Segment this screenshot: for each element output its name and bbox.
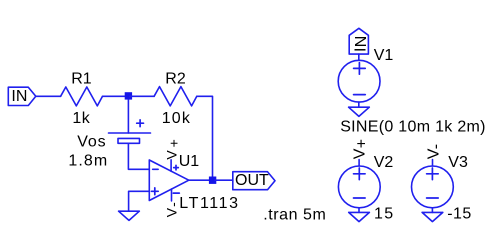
battery plus sign [137,120,144,127]
wire op-amp noninverting input to ground [129,191,150,211]
svg-text:R2: R2 [165,70,186,87]
node junction 2 (output) [209,177,216,184]
svg-text:U1: U1 [179,153,200,170]
svg-text:R1: R1 [71,70,92,87]
inverting input dash [153,168,158,170]
svg-text:V3: V3 [448,154,468,171]
power pin V- small minus [173,192,179,194]
triangle [149,160,189,201]
svg-text:SINE(0 10m 1k 2m): SINE(0 10m 1k 2m) [340,119,486,136]
node junction 1 [125,92,132,99]
voltage source Vos (battery) [68,100,150,170]
svg-text:V2: V2 [374,154,394,171]
svg-text:LT1113: LT1113 [179,195,239,212]
V2 circle [338,166,380,208]
V1 circle [338,60,380,102]
battery bottom plate [118,138,140,143]
svg-text:.tran 5m: .tran 5m [263,206,326,223]
power pin V+ small plus [174,165,179,170]
svg-text:N: N [353,36,370,48]
svg-text:V: V [352,148,369,159]
ground (V2) [349,212,370,221]
battery top plate [109,132,151,134]
resistor R1 [61,70,103,127]
resistor R2 [154,70,197,127]
wire battery to op-amp inverting input [128,143,149,169]
wire IN to R1 [36,95,61,97]
wire node to R2 [130,95,154,97]
ground (op-amp + input) [119,211,140,220]
svg-text:15: 15 [374,205,395,222]
svg-text:+: + [166,139,182,147]
svg-text:Vos: Vos [77,134,106,151]
voltage source V1 [338,28,486,135]
op-amp U1 [149,139,239,217]
svg-text:V: V [164,207,180,217]
port IN (rotated, on V1) [349,28,368,54]
V1 minus [354,94,366,96]
V1 plus [354,63,366,75]
V3 minus [427,197,439,199]
wire R1 to node [103,95,127,97]
wire node to battery [127,100,129,133]
noninverting input plus [151,188,158,195]
V2 minus [354,197,366,199]
wire V1 to ground [358,102,360,107]
power pin V+ line [170,160,172,172]
V3 plus [427,168,439,180]
voltage source V3 [412,144,472,223]
port OUT [233,172,275,190]
power pin V- line [171,189,173,201]
wire port to V1 [358,54,360,60]
wire R2 to output node [197,96,213,180]
svg-text:10k: 10k [162,110,191,127]
wire V3 to ground [431,208,433,213]
voltage source V2 [338,139,394,223]
svg-text:-15: -15 [447,205,472,222]
svg-text:V1: V1 [374,47,394,64]
svg-text:1.8m: 1.8m [68,153,108,170]
svg-text:V: V [164,150,180,160]
svg-text:+: + [353,139,370,148]
wire stub V- to V3 [432,160,434,167]
svg-text:IN: IN [11,88,27,105]
wire node to OUT port [215,179,233,181]
svg-text:1k: 1k [72,110,90,127]
wire stub V+ to V2 [358,160,360,167]
ground (V3) [422,212,443,221]
svg-text:-: - [427,144,444,149]
wire op-amp output to node [189,179,210,181]
svg-text:OUT: OUT [235,172,269,189]
wire V2 to ground [358,208,360,213]
port IN [8,87,36,105]
V3 circle [412,166,454,208]
ground (V1) [349,107,370,116]
V2 plus [354,168,366,180]
